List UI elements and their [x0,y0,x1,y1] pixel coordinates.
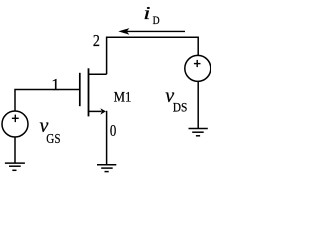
svg-text:D: D [153,15,160,27]
svg-text:0: 0 [110,121,116,140]
wire: top horizontal drain-to-vDS [107,37,199,74]
transistor M1 gate bar [79,73,81,106]
svg-text:1: 1 [51,75,60,94]
gate wire from vGS [15,90,80,111]
vDS plus [194,63,201,65]
svg-text:i: i [143,3,150,23]
ground (transistor source) [97,164,116,166]
transistor M1 channel bar [88,68,90,116]
ground (vDS) [189,128,208,130]
svg-text:2: 2 [93,31,100,50]
svg-text:GS: GS [46,132,60,147]
label iD [143,3,150,23]
vGS plus [12,117,19,119]
vGS source circle [2,111,28,137]
current arrow iD [127,30,185,32]
wire: vDS to ground [197,81,199,128]
wire: source down to ground [106,111,108,165]
svg-text:DS: DS [173,99,188,114]
drain lead [89,73,107,75]
svg-text:M1: M1 [114,89,132,105]
source lead with arrow [89,110,102,112]
wire: vGS to ground [14,137,16,163]
ground (vGS) [5,162,25,164]
vDS source circle [185,55,211,81]
